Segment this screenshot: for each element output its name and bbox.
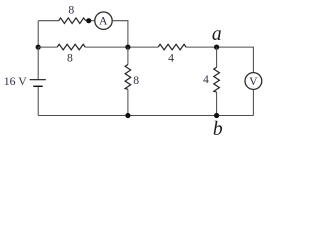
op-amp ammeter A1 circle xyxy=(95,12,112,29)
resistor R-top 8 (zigzag, top branch) xyxy=(59,18,86,24)
wire: voltmeter down to bottom-right corner xyxy=(252,89,254,115)
wire: top horizontal lead into R-top xyxy=(38,20,59,22)
node b dot xyxy=(214,113,219,118)
node dot: center junction xyxy=(125,45,130,50)
voltmeter V1 circle xyxy=(245,73,262,90)
battery B1 long plate xyxy=(30,79,46,81)
resistor R4-vert: lead from node a xyxy=(216,47,218,67)
svg-text:16 V: 16 V xyxy=(4,75,27,88)
node: junction dot left of ammeter xyxy=(86,18,91,23)
svg-text:8: 8 xyxy=(67,52,73,65)
wire: R-top to junction dot xyxy=(86,20,95,22)
node a dot xyxy=(214,45,219,50)
wire: ammeter to top-right corner and down xyxy=(112,21,128,47)
battery B1 short plate xyxy=(33,85,42,87)
wire: R-mid-vert to bottom rail xyxy=(127,89,129,115)
battery B1 bottom lead xyxy=(37,87,39,115)
resistor R-mid-vert 8: lead from center junction xyxy=(127,47,129,64)
svg-text:4: 4 xyxy=(203,73,209,86)
wire: R4-vert to node b xyxy=(216,92,218,115)
resistor R4 horizontal (zigzag) xyxy=(158,44,186,50)
resistor R4-vert zigzag xyxy=(214,67,220,92)
svg-text:V: V xyxy=(249,75,258,88)
node dot: bottom center junction xyxy=(125,113,130,118)
resistor R-mid 8 (zigzag, middle branch) xyxy=(57,44,85,50)
wire: top-left vertical (top loop left side) xyxy=(37,21,39,47)
wire: middle wire lead into R-mid xyxy=(38,46,57,48)
svg-text:a: a xyxy=(212,24,222,45)
node dot: middle wire left end xyxy=(36,45,41,50)
battery B1 top lead xyxy=(37,47,39,79)
resistor R-mid-vert 8 zigzag xyxy=(125,65,131,90)
svg-text:8: 8 xyxy=(133,74,139,87)
wire: R4 to node a and on to right corner, down to voltmeter xyxy=(186,47,253,73)
wire: bottom rail xyxy=(38,115,253,117)
svg-text:b: b xyxy=(213,119,223,138)
wire: R-mid to center junction xyxy=(85,46,158,48)
svg-text:4: 4 xyxy=(168,52,174,65)
svg-text:8: 8 xyxy=(68,4,74,17)
svg-text:A: A xyxy=(99,15,108,28)
